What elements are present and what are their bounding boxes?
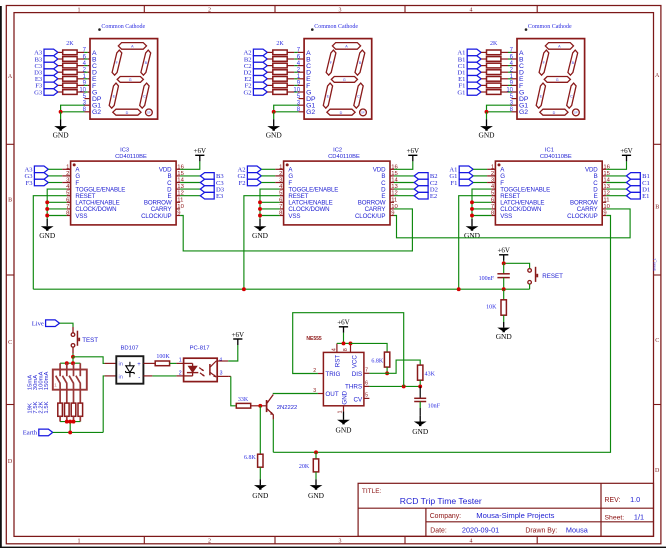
wire flag E1 to resistor [481,78,486,80]
svg-text:11: 11 [391,197,397,203]
wire display G1 to ground [512,104,518,106]
svg-text:2K: 2K [490,41,498,47]
wire bottom rail to Earth line [69,422,71,433]
wire junction to GND [486,112,488,120]
junction bottom rail pole3 [72,420,76,424]
junction IC1 pin7 [470,207,474,211]
junction IC2 pin8 [258,214,262,218]
wire Earth line to BD107 in- [103,376,104,433]
IC2 pin 1 lead [280,168,284,170]
svg-text:Mousa-Simple Projects: Mousa-Simple Projects [476,511,554,520]
NE555 pin 7 DIS [364,372,370,374]
svg-text:DIS: DIS [352,371,363,378]
svg-text:7: 7 [491,204,494,210]
svg-text:GND: GND [412,427,429,436]
resistor 2K (row e, digit 1) [487,77,501,82]
wire junction to BD107 in+ [73,357,105,364]
svg-text:4: 4 [332,348,338,351]
svg-text:CLOCK/UP: CLOCK/UP [567,213,597,220]
IC3 pin 7 lead [67,208,71,210]
svg-text:2K: 2K [66,41,74,47]
net flag D1 (output of IC1) [626,186,650,194]
IC1 pin 14 lead [602,182,606,184]
segment G [117,77,143,83]
svg-text:10nF: 10nF [428,404,441,410]
wire 2N2222 collector to NE555 OUT [273,393,318,396]
svg-text:3: 3 [313,388,316,394]
svg-text:D: D [8,459,13,465]
svg-text:2: 2 [208,539,211,545]
IC2 pin 9 lead [390,215,394,217]
wire flag C1 to resistor [481,65,486,67]
junction IC3 pin6 [45,200,49,204]
svg-text:NE555: NE555 [306,336,322,342]
wire IC2 VDD to +6V [394,161,413,169]
ground (reset 10K) [496,322,513,341]
net flag G3 [34,89,58,97]
IC3 pin 12 lead [176,195,180,197]
junction G1/G2/GND [59,110,63,114]
svg-text:TRIG: TRIG [325,371,340,378]
IC1 pin 12 lead [602,195,606,197]
svg-text:DP: DP [147,113,151,115]
wire G2 to IC2 pin 2 [261,175,275,177]
wire resistor to display pin 4 [77,65,84,67]
net flag F2 (input to IC2) [239,179,262,187]
svg-text:Sheet_1: Sheet_1 [653,258,657,271]
wire F1 to IC1 pin 3 [473,182,487,184]
svg-text:Common Cathode: Common Cathode [314,24,358,30]
wire display G2 to ground [85,111,91,113]
resistor 2K (row d, digit 2) [273,70,287,75]
wire display G1 to ground [85,104,91,106]
junction IC2 pin7 [258,207,262,211]
IC1 pin 8 lead [491,215,495,217]
svg-text:VSS: VSS [288,213,300,220]
svg-text:VCC: VCC [352,355,359,369]
svg-text:1.0: 1.0 [630,495,640,504]
net flag E3 (output of IC3) [200,192,224,200]
wire resistor to display pin 2 [77,71,84,73]
resistor 2K (row e, digit 3) [63,77,77,82]
svg-text:BD107: BD107 [121,346,139,352]
resistor 2K (row g, digit 1) [487,90,501,95]
net flag E1 [458,76,481,84]
wire IC2 pin 12 to E2 [394,195,414,197]
segment DP [573,109,580,116]
svg-text:3: 3 [339,539,342,545]
svg-text:7: 7 [66,204,69,210]
net flag C3 (output of IC3) [200,179,224,187]
junction Earth line [68,430,72,434]
svg-text:4: 4 [470,539,473,545]
wire IC3 pin 14 to C3 [180,182,200,184]
svg-text:GND: GND [252,231,269,240]
ground (display 1) [478,119,495,139]
segment G [544,77,570,83]
IC3 pin 6 lead [67,201,71,203]
NE555 pin 6 THRS [364,385,370,387]
svg-text:7: 7 [365,368,368,374]
svg-text:A: A [655,73,660,79]
svg-text:Company:: Company: [430,513,461,520]
wire flag D1 to resistor [481,71,486,73]
wire display G1 to ground [299,104,305,106]
svg-text:G2: G2 [306,109,315,116]
svg-text:D: D [655,468,660,474]
IC2 pin 11 lead [390,201,394,203]
wire resistor to display pin 4 [287,65,294,67]
wire A2 to IC2 pin 1 [261,168,275,170]
junction base / 6.8K [258,404,262,408]
svg-text:GND: GND [252,491,269,500]
NE555 pin 3 OUT [318,393,324,395]
net flag B1 (output of IC1) [626,173,649,181]
junction IC2 pin6 [258,200,262,204]
svg-text:B: B [8,198,12,204]
wire 20K to ground [315,472,317,479]
junction TEST/bridge/selector [71,355,75,359]
wire PC-817 pin3 to 33K [217,375,228,377]
svg-text:DP: DP [574,113,578,115]
IC3 pin 9 lead [176,215,180,217]
net flag C3 [34,62,57,70]
wire resistor to display pin 6 [287,58,294,60]
svg-text:GND: GND [53,131,70,140]
wire flag C2 to resistor [267,65,273,67]
junction selector pole 3 [71,361,75,365]
net flag D2 (output of IC2) [414,186,438,194]
segment DP [146,109,153,116]
resistor 1.5K (selector) [78,403,83,416]
svg-text:10: 10 [79,87,86,93]
segment B [568,50,578,75]
wire junction to GND [60,112,62,120]
wire PC-817 pin4 to +6V [217,360,228,362]
ground (display 2) [266,119,283,139]
node Common Cathode label (display 3) [98,28,101,31]
wire resistor to display pin 10 [501,91,508,93]
wire F3 to IC3 pin 3 [48,182,62,184]
svg-text:IC1: IC1 [545,148,554,154]
svg-text:IC2: IC2 [333,148,342,154]
+6V power flag (IC2) [407,147,420,161]
wire flag D3 to resistor [58,71,63,73]
resistor 2K (row a, digit 1) [487,50,501,55]
resistor 6.8K (timing) [384,352,389,367]
IC1 pin 10 lead [602,208,606,210]
IC1 pin 11 lead [602,201,606,203]
pushbutton TEST [71,327,80,354]
svg-text:+6V: +6V [337,319,350,327]
svg-text:IC3: IC3 [120,148,129,154]
IC1 pin 15 lead [602,175,606,177]
svg-text:D: D [553,111,556,115]
svg-text:+6V: +6V [194,147,207,155]
wire flag F2 to resistor [267,84,273,86]
svg-text:2: 2 [179,371,182,377]
+6V power flag (IC3) [194,147,207,161]
net flag A2 [244,49,268,57]
svg-text:Live: Live [32,321,44,328]
junction reset rail / IC2 RESET [242,287,246,291]
svg-text:10K: 10K [486,305,497,311]
svg-text:G2: G2 [244,89,252,96]
net flag A1 (input to IC1) [449,166,473,174]
net flag A3 (input to IC3) [25,166,49,174]
svg-text:1/1: 1/1 [634,513,644,522]
svg-text:+6V: +6V [407,147,420,155]
wire F2 to IC2 pin 3 [261,182,275,184]
IC3 pin 3 lead [67,182,71,184]
ground (IC1) [464,219,481,240]
net flag G2 [244,89,268,97]
wire 6.8K to DIS node [386,367,388,373]
junction bottom rail / earth drop [68,420,72,424]
svg-text:Common Cathode: Common Cathode [528,24,572,30]
svg-text:6.8K: 6.8K [371,358,384,364]
svg-text:GND: GND [496,332,513,341]
svg-text:100nF: 100nF [479,276,495,282]
net flag A3 [34,49,58,57]
svg-text:G3: G3 [34,89,43,96]
net flag F1 [458,82,481,90]
svg-text:TITLE:: TITLE: [362,488,382,495]
timer U1 NE555 body [323,352,364,405]
wire resistor to display pin 9 [77,84,84,86]
title block [358,483,653,536]
net flag F3 (input to IC3) [26,179,49,187]
net flag A2 (input to IC2) [238,166,262,174]
wire IC3 pin 15 to B3 [180,175,200,177]
segment F [539,50,549,75]
IC2 pin 14 lead [390,182,394,184]
net flag D3 (output of IC3) [200,186,224,194]
wire resistor to display pin 1 [77,78,84,80]
resistor 100K [155,361,169,366]
display DP pin lead [299,98,305,100]
net flag G1 [457,89,481,97]
wire flag F1 to resistor [481,84,486,86]
op IC IC3 CD40110BE body [71,161,177,225]
svg-text:in: in [119,362,123,368]
svg-text:1: 1 [78,7,81,13]
svg-text:5: 5 [365,393,368,399]
wire G1 to IC1 pin 2 [473,175,487,177]
ground (IC2) [252,219,269,240]
wire A3 to IC3 pin 1 [48,168,62,170]
svg-text:VSS: VSS [75,213,87,220]
IC3 pin 8 lead [67,215,71,217]
wire flag B2 to resistor [267,58,273,60]
+6V power flag (NE555) [337,319,350,333]
wire reset rail (RESET net horizontal) [33,288,529,290]
svg-text:10: 10 [293,87,300,93]
7-segment display DS1 [517,39,585,120]
IC3 pin 16 lead [176,168,180,170]
segment E [109,83,118,108]
segment C [354,83,363,108]
op IC IC2 CD40110BE body [284,161,390,225]
resistor 7.5K (selector) [65,403,70,416]
IC2 pin 13 lead [390,188,394,190]
pushbutton RESET [528,267,538,289]
wire flag E2 to resistor [267,78,273,80]
resistor 2K (row b, digit 3) [63,57,77,62]
segment A [545,43,573,50]
svg-text:20K: 20K [299,464,310,470]
+6V power flag (IC1) [620,147,633,161]
wire flag C3 to resistor [58,65,63,67]
svg-text:Sheet:: Sheet: [605,515,625,522]
segment E [536,83,545,108]
svg-text:6.8K: 6.8K [244,455,257,461]
wire 10K to ground [503,315,505,322]
svg-text:9: 9 [603,211,606,217]
wire BD107 + to 100K [143,362,155,364]
net flag B2 [244,56,267,64]
wire IC2 pin 14 to C2 [394,182,414,184]
NE555 pin 1 GND [343,406,345,412]
capacitor 10nF [414,386,426,415]
wire flag B1 to resistor [481,58,486,60]
wire resistor to display pin 10 [77,91,84,93]
resistor 6.8K (base pulldown) [258,454,263,467]
wire flag E3 to resistor [58,78,63,80]
net flag B1 [458,56,481,64]
ground (10nF) [412,416,429,436]
junction reset rail / IC1 RESET [457,287,461,291]
svg-text:F3: F3 [26,180,34,187]
wire resistor to display pin 7 [287,51,294,53]
resistor 2K (row c, digit 3) [63,63,77,68]
segment D [113,109,141,115]
resistor 19K (selector) [58,403,63,416]
optocoupler PC-817 [184,358,218,381]
svg-text:GND: GND [342,390,349,404]
junction THRS/TRIG feedback [402,384,406,388]
IC2 pin 4 lead [280,188,284,190]
junction 43K/10nF/THRS [418,384,422,388]
svg-text:A: A [8,74,13,80]
svg-text:VSS: VSS [500,213,512,220]
net flag E2 [244,76,267,84]
wire selector common rail [60,362,80,364]
black page edge left [0,6,2,548]
svg-text:RESET: RESET [542,273,563,280]
wire resistor to display pin 6 [77,58,84,60]
IC1 pin 13 lead [602,188,606,190]
ground (NE555) [335,411,352,434]
resistor 43K [418,365,423,380]
wire IC3 VDD to +6V [180,161,200,169]
svg-text:-: - [138,375,140,381]
segment E [323,83,332,108]
junction IC3 pin7 [45,207,49,211]
svg-text:CD40110BE: CD40110BE [115,154,147,160]
svg-text:REV:: REV: [605,497,621,504]
net flag E3 [35,76,58,84]
IC1 pin 16 lead [602,168,606,170]
IC2 pin 5 lead [280,195,284,197]
wire IC3 RESET to reset rail [33,196,66,290]
net flag C1 [458,62,481,70]
wire +6V to 100nF and RESET switch [503,261,505,264]
svg-text:3: 3 [220,371,223,377]
svg-text:GND: GND [335,425,352,434]
wire IC1 CARRY to IC2 CLOCK/UP (net N2) [394,209,630,238]
svg-text:DP: DP [361,113,365,115]
IC2 pin 10 lead [390,208,394,210]
resistor 2K (row b, digit 2) [273,57,287,62]
svg-text:9: 9 [177,211,180,217]
wire resistor 1.5K to bottom rail [79,416,81,421]
svg-text:Common Cathode: Common Cathode [101,24,145,30]
svg-text:GND: GND [266,131,283,140]
wire IC2 pin 15 to B2 [394,175,414,177]
svg-text:1: 1 [338,411,344,414]
svg-text:43K: 43K [425,371,436,377]
IC2 pin 15 lead [390,175,394,177]
wire resistor to display pin 6 [501,58,508,60]
svg-text:2020-09-01: 2020-09-01 [462,525,499,534]
svg-text:D: D [340,111,343,115]
svg-text:OUT: OUT [325,391,338,398]
wire IC3 pin 12 to E3 [180,195,200,197]
junction selector pole 2 [65,361,69,365]
wire display G2 to ground [299,111,305,113]
svg-text:RCD Trip Time Tester: RCD Trip Time Tester [400,496,482,506]
ground (20K) [308,479,325,500]
IC3 pin 10 lead [176,208,180,210]
svg-text:GND: GND [478,131,495,140]
NE555 pin 8 VCC [350,343,352,352]
wire 43K bottom to THRS line [419,380,421,386]
svg-text:2K: 2K [276,41,284,47]
segment F [326,50,336,75]
wire flag F3 to resistor [58,84,63,86]
wire flag A2 to resistor [267,51,273,53]
wire +6V to RST/VCC [343,333,345,344]
wire selector bottom rail [60,421,80,423]
IC1 pin 3 lead [491,182,495,184]
wire BD107 - to PC-817 pin2 [143,375,152,377]
net flag E2 (output of IC2) [414,192,437,200]
net flag E1 (output of IC1) [626,192,649,200]
net flag F3 [35,82,58,90]
net flag G2 (input to IC2) [238,173,262,181]
svg-text:C: C [8,340,12,346]
wire base junction to 6.8K [259,406,261,454]
segment C [140,83,149,108]
resistor 2K (row d, digit 1) [487,70,501,75]
NE555 pin 2 TRIG [318,373,324,375]
svg-text:GND: GND [39,231,56,240]
svg-text:1: 1 [78,539,81,545]
net flag D1 [457,69,481,77]
IC2 pin 8 lead [280,215,284,217]
svg-text:+: + [137,362,141,368]
svg-text:G2: G2 [519,109,528,116]
svg-text:1: 1 [179,358,182,364]
wire resistor 19K to bottom rail [59,416,61,421]
svg-text:C: C [143,94,146,98]
svg-text:C: C [570,94,573,98]
svg-text:+6V: +6V [620,147,633,155]
net flag F1 (input to IC1) [450,179,473,187]
svg-text:10: 10 [177,204,184,210]
segment G [331,77,357,83]
